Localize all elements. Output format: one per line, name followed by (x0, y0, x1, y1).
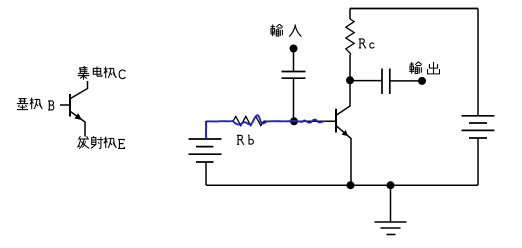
battery B1 bottom lead wire (205, 162, 207, 185)
wire input terminal to C1 (293, 49, 295, 72)
battery B1 (left): top lead wire (205, 121, 207, 139)
resistor Rb (233, 116, 264, 125)
label 输入 (270, 24, 301, 36)
label Rc (359, 39, 375, 48)
wire Rc to collector node (349, 55, 351, 80)
blue annotation wire over Rb branch (206, 115, 324, 138)
node: collector junction dot (346, 76, 354, 84)
demo transistor symbol: emitter arrow (74, 113, 82, 120)
demo transistor symbol: base bar (69, 94, 71, 117)
label Rb (237, 135, 254, 144)
wire Rb to base node (264, 120, 294, 122)
input terminal (290, 45, 298, 53)
node: emitter junction dot (347, 181, 355, 189)
label 发射极E (78, 136, 125, 149)
transistor Q1: emitter arrow (342, 130, 348, 136)
label 集电极C (78, 66, 126, 80)
node: ground junction dot (387, 181, 395, 189)
node: base junction dot (290, 117, 298, 125)
label 基极B (17, 98, 54, 110)
bottom return wire (206, 184, 478, 186)
wire top to Rc (349, 9, 351, 20)
transistor Q1: collector lead (337, 84, 351, 115)
wire C1 to base node (293, 78, 295, 121)
output terminal (418, 77, 426, 85)
wire base node to transistor base (294, 120, 336, 122)
label 输出 (409, 62, 439, 74)
battery B1 plates (189, 139, 222, 162)
battery B2 (right): top lead wire (477, 9, 479, 116)
wire collector node to C2 (350, 80, 382, 82)
demo transistor symbol: emitter lead (71, 112, 86, 137)
capacitor C1 (input coupling) (282, 72, 306, 79)
battery B2 bottom lead wire (477, 138, 479, 185)
demo transistor symbol: base lead (60, 104, 70, 106)
ground (375, 222, 407, 235)
wire battery B1 to resistor Rb (206, 120, 233, 122)
wire ground node to ground (390, 185, 392, 222)
battery B2 plates (462, 116, 495, 138)
capacitor C2 (output coupling) (382, 69, 390, 95)
demo transistor symbol: collector lead (71, 81, 88, 99)
transistor Q1: base bar (335, 109, 337, 133)
top supply wire (350, 8, 478, 10)
resistor Rc (346, 19, 354, 55)
transistor Q1: emitter lead (337, 126, 352, 185)
wire C2 to output terminal (390, 80, 422, 82)
